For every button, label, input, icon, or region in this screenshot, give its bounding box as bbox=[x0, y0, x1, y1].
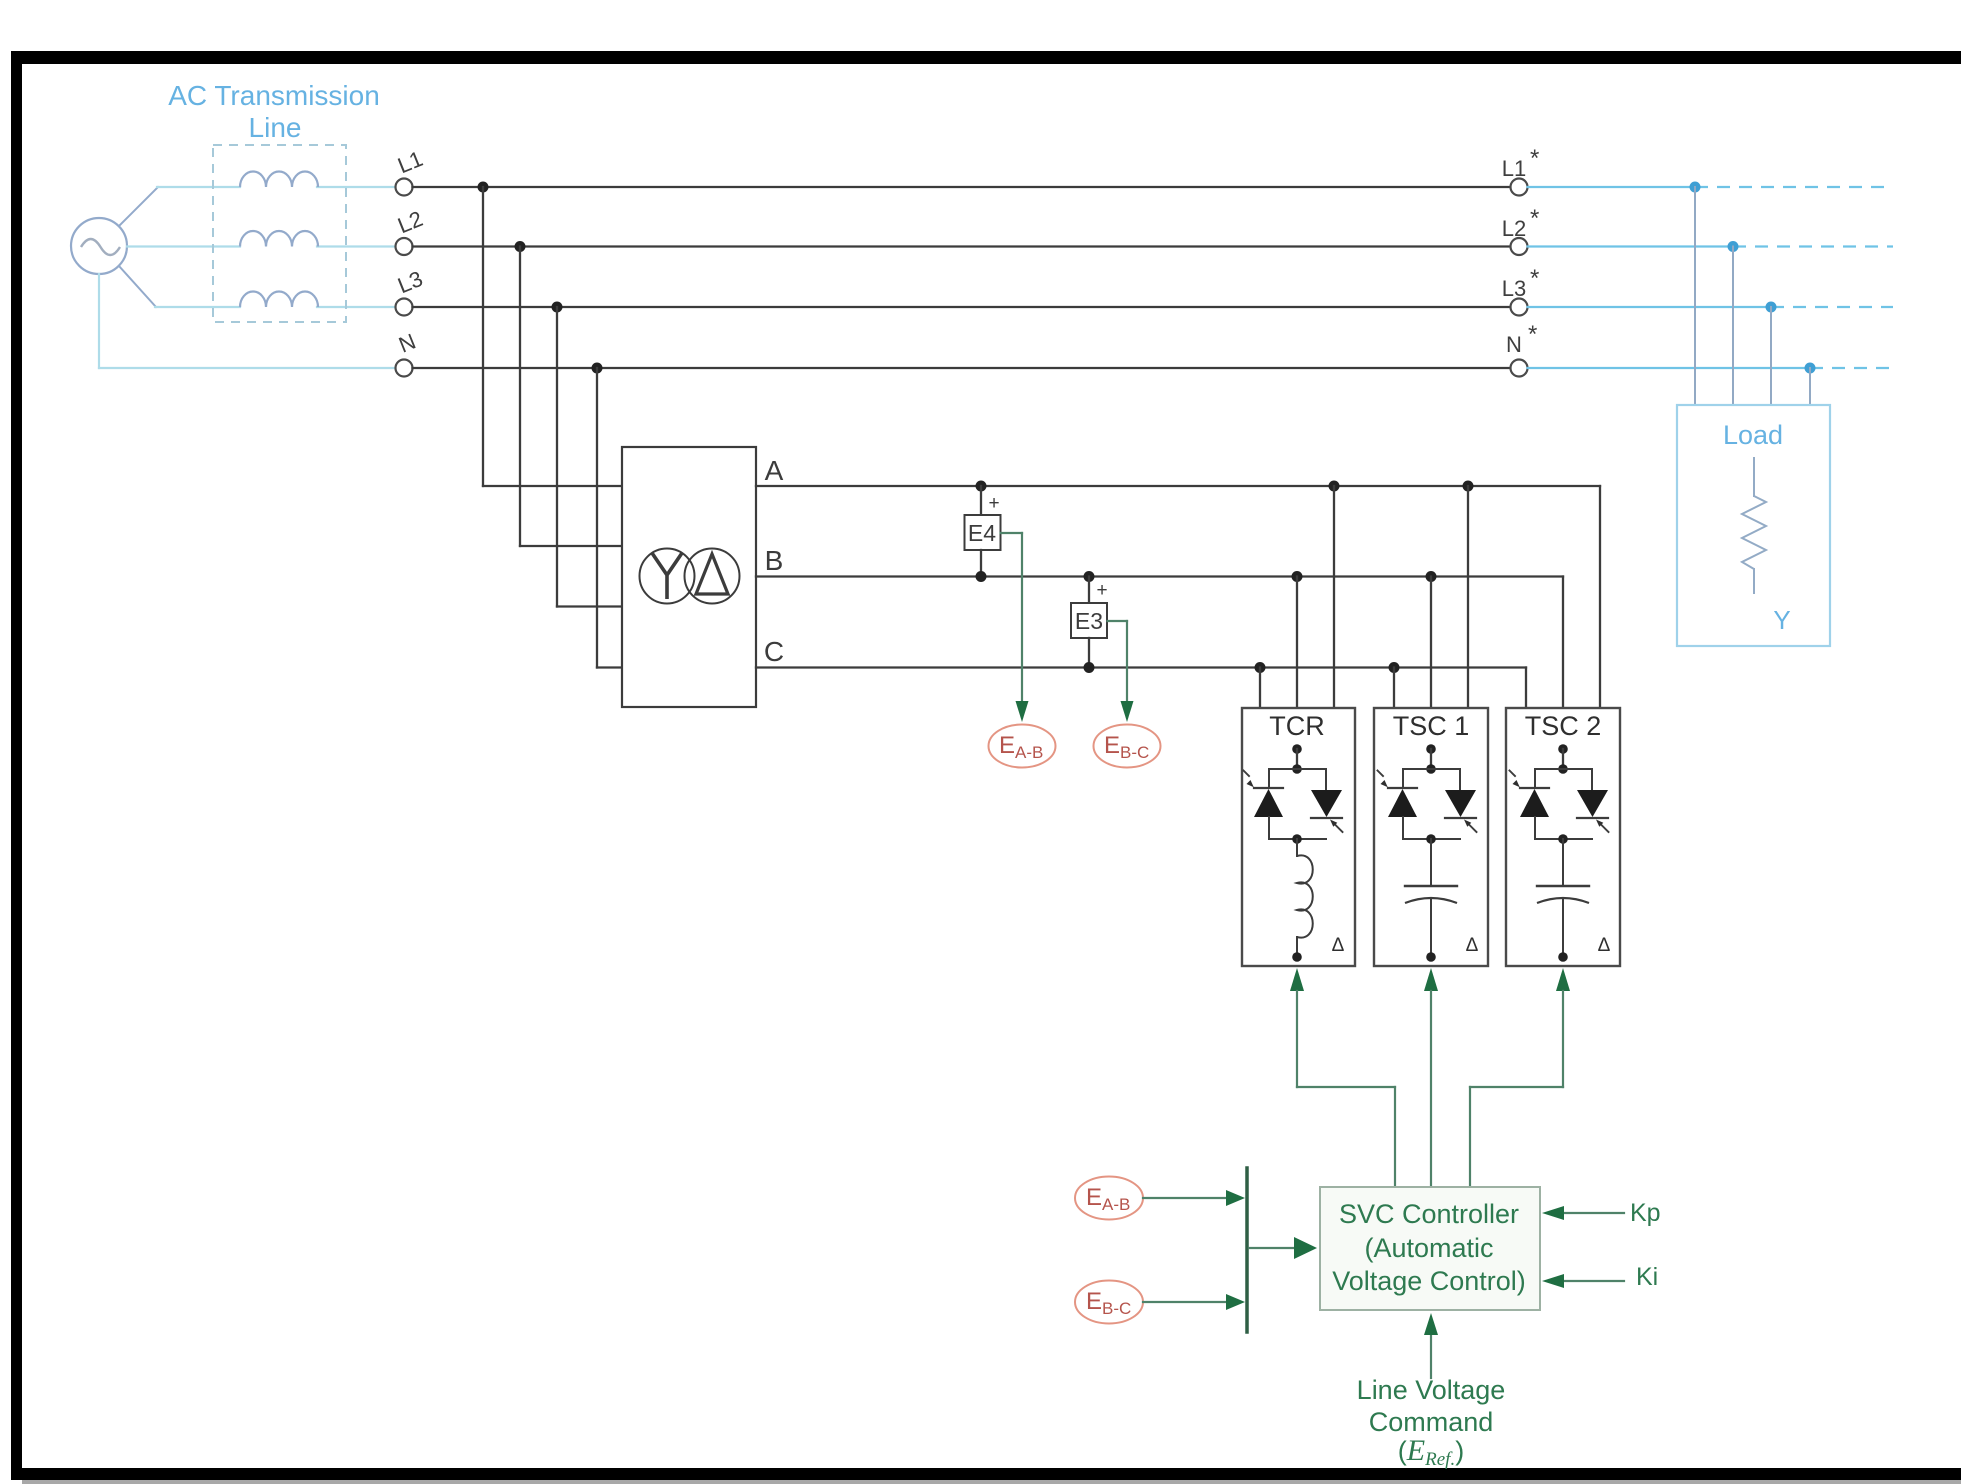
thyristor Q1b bbox=[1325, 769, 1327, 790]
wire controller to TSC1 bbox=[1424, 968, 1438, 991]
wire L2 bus bbox=[413, 245, 1511, 247]
inductor phase L2 bbox=[240, 231, 318, 247]
svg-text:Ki: Ki bbox=[1636, 1263, 1658, 1291]
svg-text:Y: Y bbox=[1773, 605, 1790, 635]
wire TCR branch bbox=[1269, 768, 1326, 770]
wire controller to TSC2 bbox=[1556, 968, 1570, 991]
wire E4 to EA-B bbox=[1001, 532, 1023, 534]
wire source to L3 bbox=[119, 266, 156, 307]
wire phase A bbox=[756, 485, 1600, 487]
wire source to L2 bbox=[127, 245, 240, 247]
node A-E4 bbox=[976, 481, 987, 492]
wire C to TCR bbox=[1259, 668, 1261, 709]
node TCR top bbox=[1292, 744, 1302, 754]
node load L1 bbox=[1690, 182, 1701, 193]
wire L3* to load bbox=[1528, 306, 1772, 308]
terminal L3 bbox=[396, 299, 413, 316]
svg-text:Δ: Δ bbox=[1598, 935, 1611, 956]
svg-text:TSC 2: TSC 2 bbox=[1525, 711, 1602, 741]
node C-TCR bbox=[1255, 662, 1266, 673]
wire E3 to EB-C bbox=[1108, 620, 1128, 622]
wire source to N bbox=[98, 274, 100, 368]
wire TSC 2 branch bbox=[1535, 768, 1592, 770]
inductor TCR bbox=[1296, 839, 1298, 856]
node TCR mid bbox=[1292, 834, 1302, 844]
node B-E4 bbox=[976, 571, 987, 582]
node B-TCR bbox=[1292, 571, 1303, 582]
node TSC 1 mid bbox=[1426, 834, 1436, 844]
thyristor Q2a bbox=[1402, 769, 1404, 788]
node TSC 1 top bbox=[1426, 744, 1436, 754]
svg-text:+: + bbox=[988, 493, 999, 514]
node C-E3 bbox=[1084, 662, 1095, 673]
net EA-B output bbox=[989, 725, 1056, 768]
net EA-B input bbox=[1075, 1177, 1143, 1220]
svg-text:*: * bbox=[1530, 265, 1539, 292]
node TSC 2 bottom bbox=[1558, 952, 1568, 962]
svg-text:Voltage Control): Voltage Control) bbox=[1332, 1266, 1526, 1296]
net line voltage command bbox=[1430, 1335, 1432, 1378]
wire Kp to controller bbox=[1564, 1212, 1624, 1214]
node L3 tap bbox=[552, 302, 563, 313]
thyristor Q3a bbox=[1534, 769, 1536, 788]
terminal L2* bbox=[1511, 238, 1528, 255]
node TSC 1 bottom bbox=[1426, 952, 1436, 962]
node L2 tap bbox=[515, 241, 526, 252]
svg-text:AC Transmission: AC Transmission bbox=[168, 80, 380, 111]
svg-text:Line: Line bbox=[249, 112, 302, 143]
wire L3 to transformer bbox=[556, 307, 558, 607]
transformer T1 Y-Delta bbox=[622, 447, 756, 707]
svg-text:TCR: TCR bbox=[1269, 711, 1325, 741]
svg-text:L2: L2 bbox=[1502, 216, 1526, 241]
svg-text:+: + bbox=[1096, 580, 1107, 601]
svg-text:Δ: Δ bbox=[1466, 935, 1479, 956]
wire L2 to transformer bbox=[519, 247, 521, 547]
wire Ki to controller bbox=[1564, 1280, 1624, 1282]
bus measurement bbox=[1245, 1168, 1249, 1332]
load block bbox=[1677, 405, 1830, 646]
terminal L3* bbox=[1511, 299, 1528, 316]
svg-text:Line Voltage: Line Voltage bbox=[1357, 1375, 1506, 1405]
terminal N bbox=[396, 360, 413, 377]
wire N bus bbox=[413, 367, 1511, 369]
svg-text:Kp: Kp bbox=[1630, 1199, 1661, 1227]
voltmeter E3 bbox=[1088, 577, 1090, 604]
node TCR bottom bbox=[1292, 952, 1302, 962]
svg-text:C: C bbox=[764, 636, 784, 667]
wire drop N to load bbox=[1809, 368, 1811, 405]
svg-text:SVC Controller: SVC Controller bbox=[1339, 1199, 1519, 1229]
wire drop L1 to load bbox=[1694, 187, 1696, 405]
terminal L1* bbox=[1511, 179, 1528, 196]
wire B to TSC1 bbox=[1430, 577, 1432, 709]
inductor phase L3 bbox=[240, 292, 318, 308]
node C-TSC1 bbox=[1389, 662, 1400, 673]
net EB-C output bbox=[1094, 725, 1161, 768]
node load L3 bbox=[1766, 302, 1777, 313]
block TSC 1 bbox=[1374, 708, 1488, 966]
node L1 tap bbox=[478, 182, 489, 193]
resistor load bbox=[1753, 458, 1755, 496]
controller SVC bbox=[1320, 1187, 1540, 1310]
terminal L1 bbox=[396, 179, 413, 196]
block TCR bbox=[1242, 708, 1355, 966]
wire drop L3 to load bbox=[1770, 307, 1772, 405]
wire B to TCR bbox=[1296, 577, 1298, 709]
wire L2* to load bbox=[1528, 245, 1734, 247]
wire A to TSC1 bbox=[1467, 486, 1469, 708]
wire controller to TCR bbox=[1290, 968, 1304, 991]
node TSC 2 top bbox=[1558, 744, 1568, 754]
thyristor Q1a bbox=[1268, 769, 1270, 788]
svg-text:Command: Command bbox=[1369, 1407, 1494, 1437]
wire L1* to load bbox=[1528, 186, 1696, 188]
wire source to L1 bbox=[119, 187, 158, 226]
AC source bbox=[71, 218, 127, 274]
node A-TCR bbox=[1329, 481, 1340, 492]
wire N to transformer bbox=[596, 368, 598, 668]
svg-text:L3: L3 bbox=[1502, 276, 1526, 301]
block TSC 2 bbox=[1506, 708, 1620, 966]
voltmeter E4 bbox=[980, 486, 982, 515]
wire N* to load bbox=[1528, 367, 1811, 369]
terminal N* bbox=[1511, 360, 1528, 377]
wire A to TCR bbox=[1333, 486, 1335, 708]
wire EA-B to bus bbox=[1143, 1197, 1226, 1199]
svg-text:A: A bbox=[765, 455, 784, 486]
inductor phase L1 bbox=[240, 172, 318, 188]
svg-text:*: * bbox=[1530, 145, 1539, 172]
svg-text:TSC 1: TSC 1 bbox=[1393, 711, 1470, 741]
wire TSC 1 branch bbox=[1403, 768, 1460, 770]
svg-text:Load: Load bbox=[1723, 420, 1783, 450]
svg-text:(Automatic: (Automatic bbox=[1364, 1233, 1493, 1263]
thyristor Q3b bbox=[1591, 769, 1593, 790]
svg-text:L1: L1 bbox=[1502, 156, 1526, 181]
svg-text:*: * bbox=[1528, 321, 1537, 348]
svg-text:*: * bbox=[1530, 205, 1539, 232]
terminal L2 bbox=[396, 238, 413, 255]
node load L2 bbox=[1728, 241, 1739, 252]
node B-TSC1 bbox=[1426, 571, 1437, 582]
node TSC 2 mid bbox=[1558, 834, 1568, 844]
node B-E3 bbox=[1084, 571, 1095, 582]
capacitor TSC 2 bbox=[1562, 839, 1564, 886]
wire phase C bbox=[756, 666, 1526, 668]
svg-text:Δ: Δ bbox=[1332, 935, 1345, 956]
wire drop L2 to load bbox=[1732, 247, 1734, 406]
node load N bbox=[1805, 363, 1816, 374]
thyristor Q2b bbox=[1459, 769, 1461, 790]
svg-text:E3: E3 bbox=[1075, 608, 1103, 634]
node N tap bbox=[592, 363, 603, 374]
wire bus to controller bbox=[1249, 1247, 1294, 1249]
svg-text:N: N bbox=[1506, 332, 1522, 357]
wire L1 bus bbox=[413, 186, 1511, 188]
transmission line box bbox=[213, 145, 346, 322]
net EB-C input bbox=[1075, 1281, 1143, 1324]
wire phase B bbox=[756, 575, 1563, 577]
svg-text:B: B bbox=[765, 545, 784, 576]
wire EB-C to bus bbox=[1143, 1301, 1226, 1303]
capacitor TSC 1 bbox=[1430, 839, 1432, 886]
wire L3 bus bbox=[413, 306, 1511, 308]
wire C to TSC1 bbox=[1393, 668, 1395, 709]
node A-TSC1 bbox=[1463, 481, 1474, 492]
wire L1 to transformer bbox=[482, 187, 484, 486]
svg-text:E4: E4 bbox=[968, 520, 996, 546]
